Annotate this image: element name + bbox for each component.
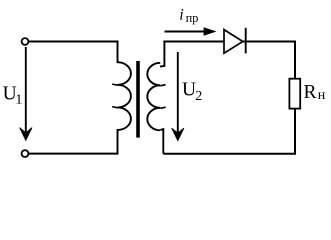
primary winding cusp tick 1 xyxy=(112,84,118,85)
wire diode to right corner xyxy=(243,41,296,43)
transformer primary winding xyxy=(118,41,131,154)
transformer core xyxy=(136,61,140,138)
svg-text:2: 2 xyxy=(195,89,202,104)
wire top-left xyxy=(29,41,119,43)
svg-text:н: н xyxy=(318,88,326,103)
terminal bottom-left xyxy=(22,150,29,157)
svg-text:R: R xyxy=(304,82,317,103)
svg-text:1: 1 xyxy=(15,92,22,107)
secondary winding bottom lead xyxy=(161,129,164,154)
secondary winding cusp tick 1 xyxy=(160,85,165,86)
resistor Rn xyxy=(289,79,300,109)
primary winding cusp tick 2 xyxy=(112,107,118,108)
wire bottom return xyxy=(163,153,296,155)
voltage arrow U2 xyxy=(177,52,179,135)
wire secondary top to diode xyxy=(163,41,224,43)
wire right vertical bottom xyxy=(294,109,296,154)
wire bottom-left xyxy=(29,153,119,155)
secondary winding cusp tick 2 xyxy=(160,107,165,108)
diode VD anode triangle xyxy=(224,30,243,54)
terminal top-left xyxy=(22,38,29,45)
current arrow i_pr xyxy=(165,31,206,33)
transformer secondary winding xyxy=(147,63,160,131)
diode VD cathode bar xyxy=(245,28,247,54)
voltage arrow U1 xyxy=(25,47,27,135)
svg-text:i: i xyxy=(179,6,183,23)
svg-text:пр: пр xyxy=(186,11,199,25)
secondary winding top lead xyxy=(160,41,164,67)
svg-text:U: U xyxy=(182,79,196,100)
wire right vertical top xyxy=(294,41,296,79)
